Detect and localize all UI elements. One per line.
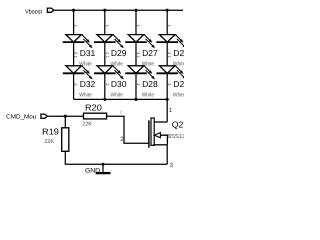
- svg-text:2: 2: [167, 83, 171, 85]
- svg-text:2: 2: [74, 52, 78, 54]
- svg-text:Q2: Q2: [172, 120, 184, 130]
- svg-text:1: 1: [105, 25, 109, 27]
- LED D28: [125, 66, 155, 80]
- svg-text:1: 1: [167, 56, 171, 58]
- wire cathode pin D28 to bus: [135, 73, 137, 99]
- svg-text:Vboost: Vboost: [25, 8, 42, 15]
- transistor Q2: [149, 118, 168, 148]
- junction cathode bus col4: [166, 98, 169, 101]
- svg-text:R20: R20: [85, 102, 102, 112]
- junction GND: [101, 163, 104, 166]
- svg-text:2: 2: [136, 52, 140, 54]
- LED D26: [156, 66, 186, 80]
- junction top bus col3: [134, 9, 137, 12]
- svg-text:D27: D27: [142, 48, 158, 58]
- wire anode pin D32: [73, 42, 75, 66]
- wire anode pin D29: [104, 10, 106, 34]
- junction cathode bus col3: [134, 98, 137, 101]
- svg-text:D29: D29: [111, 48, 127, 58]
- pin numbers D31/D32: [74, 25, 78, 86]
- svg-text:2: 2: [105, 83, 109, 85]
- wire cathode pin D26 to bus: [166, 73, 168, 99]
- LED D25: [156, 35, 186, 49]
- svg-text:R19: R19: [42, 127, 59, 137]
- wire anode pin D25: [166, 10, 168, 34]
- svg-text:22K: 22K: [44, 139, 54, 145]
- svg-text:White: White: [111, 92, 123, 99]
- svg-text:2: 2: [120, 136, 124, 143]
- svg-text:1: 1: [167, 25, 171, 27]
- svg-text:22K: 22K: [82, 121, 92, 127]
- svg-text:3: 3: [170, 162, 174, 169]
- svg-text:1: 1: [136, 56, 140, 58]
- LED D29: [94, 35, 124, 49]
- svg-text:D28: D28: [142, 79, 158, 89]
- svg-text:D25: D25: [173, 48, 184, 58]
- pin numbers D25/D26: [167, 25, 171, 86]
- svg-text:1: 1: [74, 25, 78, 27]
- resistor R19: [62, 128, 69, 152]
- wire CMD_Mou to node: [47, 115, 65, 117]
- wire anode pin D27: [135, 10, 137, 34]
- ground: [96, 164, 111, 173]
- junction top bus col2: [103, 9, 106, 12]
- pin numbers D27/D28: [136, 25, 140, 86]
- junction top bus col1: [72, 9, 75, 12]
- wire anode pin D28: [135, 42, 137, 66]
- LED D32: [63, 66, 93, 80]
- junction top bus col4: [166, 9, 169, 12]
- LED D30: [94, 66, 124, 80]
- LED D31: [63, 35, 93, 49]
- svg-text:White: White: [173, 92, 184, 99]
- wire node to R19: [64, 116, 66, 128]
- svg-text:BSS138: BSS138: [167, 133, 184, 140]
- net flag Vboost: [47, 8, 54, 12]
- wire anode pin D31: [73, 10, 75, 34]
- junction cathode bus col2: [103, 98, 106, 101]
- wire cathode pin D30 to bus: [104, 73, 106, 99]
- wire anode pin D26: [166, 42, 168, 66]
- svg-text:1: 1: [136, 25, 140, 27]
- svg-text:D31: D31: [80, 48, 96, 58]
- svg-text:2: 2: [74, 83, 78, 85]
- wire cathode bus: [74, 98, 168, 100]
- svg-text:White: White: [79, 92, 91, 99]
- svg-text:2: 2: [105, 52, 109, 54]
- svg-text:D32: D32: [80, 79, 96, 89]
- svg-text:D26: D26: [173, 79, 184, 89]
- svg-text:2: 2: [167, 52, 171, 54]
- LED D27: [125, 35, 155, 49]
- wire cathode pin D32 to bus: [73, 73, 75, 99]
- svg-text:1: 1: [74, 56, 78, 58]
- wire source pin Q2: [166, 145, 168, 165]
- wire R20 to gate: [107, 116, 149, 143]
- pin numbers D29/D30: [105, 25, 109, 86]
- svg-text:White: White: [142, 92, 154, 99]
- node junction R19/R20: [64, 115, 67, 118]
- svg-text:1: 1: [105, 56, 109, 58]
- wire node to R20: [65, 115, 83, 117]
- svg-text:CMD_Mou: CMD_Mou: [6, 114, 36, 121]
- svg-text:GND: GND: [85, 167, 100, 174]
- wire anode pin D30: [104, 42, 106, 66]
- svg-text:1: 1: [169, 107, 173, 114]
- svg-text:2: 2: [136, 83, 140, 85]
- wire R19 to gnd wire: [65, 151, 167, 164]
- net flag CMD_Mou: [41, 114, 48, 118]
- svg-text:D30: D30: [111, 79, 127, 89]
- wire Vboost top bus: [54, 9, 183, 11]
- wire drain pin Q2: [166, 99, 168, 122]
- resistor R20: [84, 113, 107, 119]
